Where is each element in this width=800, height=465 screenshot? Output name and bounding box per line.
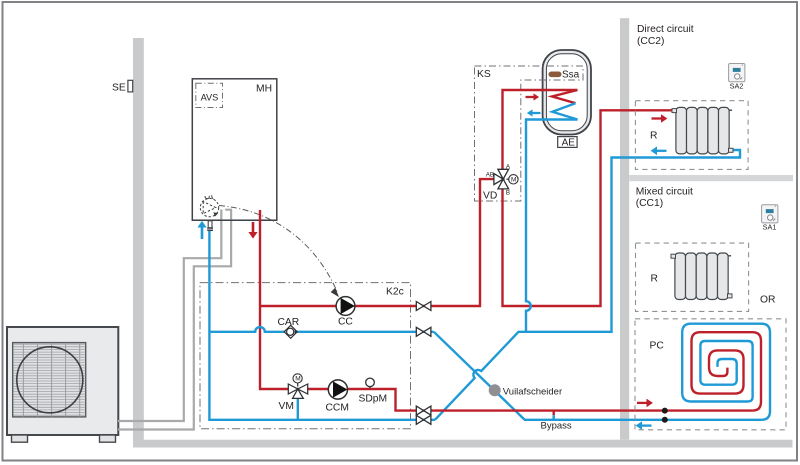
dashed box AVS xyxy=(196,83,223,107)
svg-text:VM: VM xyxy=(279,401,294,412)
svg-text:Bypass: Bypass xyxy=(541,420,572,431)
pipe blue tank coil return with bridge over red xyxy=(526,103,578,332)
arrow blue PC return xyxy=(642,424,652,426)
bypass tee blue part xyxy=(553,415,555,420)
arrow red PC supply xyxy=(637,402,647,404)
svg-text:OR: OR xyxy=(760,295,775,306)
heat pump foot left xyxy=(12,435,28,442)
svg-text:SDpM: SDpM xyxy=(359,394,388,405)
dashed box PC floor heating xyxy=(635,319,786,430)
junction dot blue return xyxy=(662,417,668,423)
svg-text:VD: VD xyxy=(483,191,497,202)
bypass tee red part xyxy=(553,411,555,416)
check valve CAR xyxy=(284,325,298,338)
internal pump (dashed circle with triangle) xyxy=(200,198,218,216)
refrigerant pipe A (gray) xyxy=(118,210,221,422)
shutoff valve V3 (red bypass line) xyxy=(416,406,431,415)
motor M of VD xyxy=(509,175,518,184)
svg-text:M: M xyxy=(295,376,300,383)
pipe red MH supply down to VM xyxy=(260,210,288,389)
svg-text:CCM: CCM xyxy=(326,403,349,414)
dashed enclosure K2c xyxy=(200,283,411,429)
union fitting below MH xyxy=(207,221,213,231)
svg-text:SE: SE xyxy=(112,83,126,94)
svg-text:MH: MH xyxy=(256,84,272,95)
svg-text:R: R xyxy=(651,274,658,285)
arrow blue out of tank coil xyxy=(533,112,541,114)
pipe red VD / tank coil supply xyxy=(503,90,673,306)
svg-text:(CC1): (CC1) xyxy=(636,198,663,209)
svg-text:SA2: SA2 xyxy=(730,81,744,90)
dirt separator (Vuilafscheider) xyxy=(489,384,501,396)
3-way mixing valve VM xyxy=(288,383,307,398)
blue return pipe: MH union down to bottom line xyxy=(209,150,740,420)
wall left xyxy=(133,38,144,448)
shutoff valve V2 (blue line) xyxy=(416,327,431,336)
svg-text:Vuilafscheider: Vuilafscheider xyxy=(503,386,562,397)
shutoff valve V1 (red CC line) xyxy=(416,302,431,311)
pump CCM xyxy=(328,380,347,399)
sensor SDpM xyxy=(369,387,371,389)
radiator R (direct circuit) xyxy=(676,107,687,153)
arrow blue up at MH inlet xyxy=(201,228,204,240)
svg-text:CC: CC xyxy=(338,317,353,328)
svg-text:CAR: CAR xyxy=(278,317,300,328)
arrow red down at MH outlet xyxy=(252,222,255,232)
svg-text:AVS: AVS xyxy=(201,93,219,103)
floor bar xyxy=(133,440,793,448)
heat pump grille xyxy=(13,343,86,417)
motor M of VM xyxy=(293,374,302,383)
svg-text:K2c: K2c xyxy=(386,287,404,298)
sensor Ssa (brown pill) xyxy=(549,72,562,78)
pipe blue PC spiral (return, spirals outward) xyxy=(524,324,770,420)
pipe red VM to bypass to PC spiral entry xyxy=(308,389,753,411)
arrow red into tank coil xyxy=(526,96,534,98)
electric backup AE box xyxy=(558,137,577,148)
pipe blue diagonal D1 xyxy=(434,332,525,420)
svg-text:A: A xyxy=(506,164,511,171)
svg-text:Direct circuit: Direct circuit xyxy=(637,24,694,35)
svg-text:AE: AE xyxy=(562,138,576,149)
DHW tank outer shell xyxy=(543,50,591,135)
heat pump fan circle xyxy=(17,347,83,413)
shutoff valve V4 (blue bottom line) xyxy=(416,415,431,424)
heat pump foot right xyxy=(100,435,116,442)
boiler module MH xyxy=(192,79,276,220)
refrigerant pipe B (gray) xyxy=(118,210,231,430)
junction dot red supply xyxy=(662,408,668,414)
pump CC xyxy=(336,297,355,316)
svg-text:PC: PC xyxy=(650,341,665,352)
3-way diverting valve VD xyxy=(494,169,509,189)
svg-text:SA1: SA1 xyxy=(763,222,777,231)
pipe blue diagonal D2 with hop, radiator CC2 return xyxy=(435,150,740,420)
control curve MH to CC pump xyxy=(219,206,338,293)
control curve arrowhead xyxy=(331,288,339,298)
pump outlet arrowhead xyxy=(213,212,218,216)
room thermostat SA2 xyxy=(729,64,745,82)
pipe blue VM bottom stub xyxy=(297,398,299,420)
svg-text:M: M xyxy=(511,177,516,184)
arrow red direct circuit supply xyxy=(652,117,662,119)
svg-text:AB: AB xyxy=(486,172,494,179)
svg-text:R: R xyxy=(650,131,657,142)
room thermostat SA1 xyxy=(762,205,778,223)
svg-text:Ssa: Ssa xyxy=(562,69,580,80)
svg-text:(CC2): (CC2) xyxy=(637,36,664,47)
wall right xyxy=(620,18,629,440)
pipe red PC spiral (supply, spirals inward) xyxy=(692,332,762,410)
MH bottom edge restroke xyxy=(192,219,276,221)
dashed enclosure KS (L-shaped, drawn over tank) xyxy=(475,66,584,201)
DHW tank inner wall xyxy=(546,54,587,131)
pipe red CC line to direct circuit radiator xyxy=(260,179,495,306)
heat pump outdoor unit body xyxy=(7,327,118,435)
arrow blue direct circuit return xyxy=(657,150,667,152)
dashed box mixed circuit radiator xyxy=(636,243,749,311)
outdoor sensor SE xyxy=(128,80,133,92)
pipe blue main vertical and bottom line xyxy=(209,231,435,420)
svg-text:KS: KS xyxy=(477,69,491,80)
pipe blue CAR branch with bridge over red xyxy=(209,327,433,332)
radiator R (mixed circuit) xyxy=(675,253,686,300)
wall divider CC2/CC1 xyxy=(629,175,793,181)
svg-text:Mixed circuit: Mixed circuit xyxy=(636,187,693,198)
svg-text:B: B xyxy=(506,190,510,197)
dashed box direct circuit radiator xyxy=(635,101,748,170)
